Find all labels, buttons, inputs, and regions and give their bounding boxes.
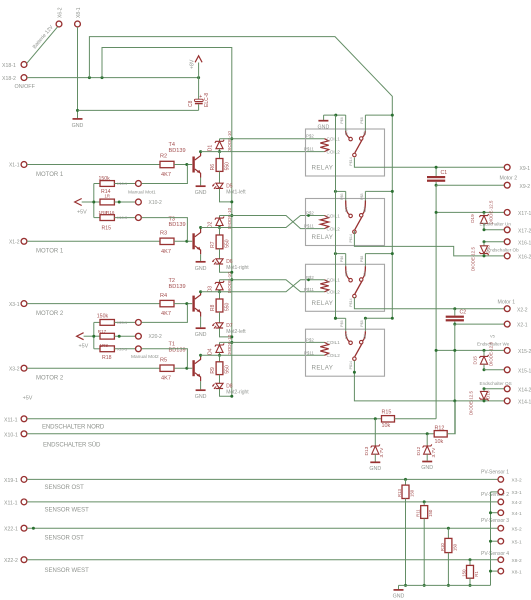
svg-text:RELAY: RELAY [312,234,334,241]
svg-text:C1: C1 [441,170,448,176]
connector pin X18-2 [21,75,27,81]
transistor T2 BD139 [192,296,194,312]
svg-text:Motor 2: Motor 2 [500,176,518,182]
resistor R17 150k [100,320,114,326]
svg-text:Manual Mot2: Manual Mot2 [131,354,159,360]
junction dot collector T1 [199,354,202,357]
svg-text:Mot2-left: Mot2-left [226,329,246,335]
ground symbol relay1 OFF contact [323,115,325,120]
svg-text:4K7: 4K7 [161,376,171,382]
wire sensor line SENSOR WEST [27,559,498,561]
svg-text:X10-2: X10-2 [149,200,163,206]
pin X22-1 SENSOR OST [21,525,27,531]
junction dot collector T2 [199,290,202,293]
svg-text:Mot2-right: Mot2-right [226,390,249,396]
svg-text:550: 550 [225,302,231,311]
junction dot collector T4 [199,150,202,153]
svg-text:X1-1: X1-1 [9,163,20,169]
svg-text:X15-2: X15-2 [518,349,531,355]
svg-text:D12: D12 [416,446,422,455]
ground symbol D12 [422,461,432,463]
wire vertical V2 from C2 down [454,324,456,434]
relay K4 common contact [355,344,362,357]
wire R5 to base of T1 [174,367,192,369]
connector pin X1-2 MOTOR 1 [21,238,27,244]
connector pin X6-2 Batterie [56,21,62,27]
relay K4 contact circles [349,341,353,345]
wire X20-1 to T2 base [142,304,188,323]
svg-text:OFF: OFF [344,270,348,276]
junction dot +8V rail at D3 [230,278,233,281]
relay K1 contact arms [346,131,350,138]
svg-text:X19-1: X19-1 [4,478,18,484]
wire GND net horizontal [78,109,199,111]
svg-text:X3-2: X3-2 [512,478,522,484]
svg-text:MOTOR 2: MOTOR 2 [36,376,64,382]
svg-text:X15-1: X15-1 [518,368,531,374]
svg-text:4K7: 4K7 [161,311,171,317]
svg-text:550: 550 [225,162,231,171]
zener diode D15 DIODE-12.5 [483,350,485,356]
svg-text:X3-1: X3-1 [512,490,522,496]
connector pin X3-2 MOTOR 2 [21,365,27,371]
pin X22-2 SENSOR WEST [21,557,27,563]
zener diode D18 DIODE-12.5 [483,242,485,246]
zener diode D12 3.7V [426,434,428,446]
resistor R7 550 [219,228,221,236]
zener diode D2 DIODE-10 [219,216,221,219]
svg-text:R15: R15 [102,226,112,232]
resistor R6 550 [219,152,221,159]
wire LED D8 to +8V rail [220,389,232,397]
svg-text:P$14: P$14 [349,361,353,369]
relay K2 contact arms [346,201,350,215]
svg-text:R2: R2 [160,154,167,160]
pin X16-2 [504,253,510,259]
svg-text:COIL2: COIL2 [327,290,341,295]
pin X15-2 [504,348,510,354]
svg-text:ON: ON [363,207,367,212]
wire X16-1 [484,241,504,243]
svg-text:RELAY: RELAY [312,165,334,172]
svg-text:150: 150 [461,569,466,577]
wire R3 to base of T3 [174,240,192,242]
relay K2 coil [320,216,328,229]
svg-text:P$14: P$14 [349,157,353,165]
zener diode D16 DIODE-12.5 [483,389,485,392]
supply +5V arrow rn1 [75,199,82,206]
svg-text:4K7: 4K7 [161,249,171,255]
transistor T3 BD139 [192,233,194,249]
svg-text:R1: R1 [474,571,479,577]
svg-text:150: 150 [428,509,433,517]
svg-text:X22-1: X22-1 [4,527,18,533]
wire X17-1 [436,211,504,213]
pin X2-1 [504,321,510,327]
ground symbol bottom rail [398,585,400,589]
svg-text:R10: R10 [440,543,445,551]
svg-text:X2-1: X2-1 [517,323,528,329]
pin X14-1 [504,398,510,404]
svg-text:RELAY: RELAY [312,365,334,372]
wire battery main +12V from X18-2 [27,77,199,79]
pin X10-1 ENDSCHALTER SUED [21,431,27,437]
wire Manual Mot1 to T4 base [142,165,188,184]
svg-text:PV-Sensor 4: PV-Sensor 4 [481,551,509,557]
svg-text:C8: C8 [188,100,194,107]
relay K1 common contact [355,140,362,153]
transistor T4 BD139 [192,157,194,173]
resistor R13 150 [405,479,407,485]
wire relay1 common to X9-1 [354,158,504,168]
wire R15 to V1 [395,418,437,420]
pin X9-2 and wire [436,184,504,186]
svg-text:GND: GND [195,190,207,196]
relay K3 common contact [355,281,362,294]
LED D6 Mot1-right [219,249,221,259]
ground of T1 [200,381,202,389]
svg-text:RELAY: RELAY [312,300,334,307]
pin X8-1 [491,570,499,572]
wire relay4 common to X14-1 [354,361,504,401]
svg-text:P$6: P$6 [340,193,344,199]
svg-text:P$11: P$11 [304,287,314,292]
wire LED D6 to +8V rail [220,264,232,272]
svg-text:Mot1-right: Mot1-right [226,265,249,271]
relay K3 contact circles [349,278,353,282]
svg-text:OFF: OFF [344,206,348,212]
svg-text:10k: 10k [435,439,444,445]
wire R13 to ground rail [405,499,407,586]
pin X11-1 ENDSCHALTER NORD [21,416,27,422]
svg-text:X16-1: X16-1 [518,240,531,246]
svg-text:X16-2: X16-2 [518,255,531,261]
svg-text:DIODE-10: DIODE-10 [227,334,232,356]
resistor R9 550 [219,355,221,362]
svg-text:PV-Sensor 2: PV-Sensor 2 [481,492,509,498]
svg-text:P$8: P$8 [360,320,364,326]
svg-text:X20-3: X20-3 [117,347,127,351]
wire X3-2 to R5 [27,367,160,369]
wire T4 collector line to relay1 coil2 [201,151,325,153]
wire GND bus left contacts vertical [335,115,337,318]
relay K2 common contact [355,217,362,230]
svg-text:R8: R8 [210,304,216,311]
relay K3 contact arms [346,266,350,279]
svg-text:BD139: BD139 [169,284,186,290]
svg-text:D1: D1 [208,145,214,152]
svg-text:P$2: P$2 [306,211,314,216]
capacitor C8 ELC-8 [198,78,200,100]
pin X19-1 SENSOR OST [21,477,27,483]
wire sensor line SENSOR WEST [27,501,498,503]
resistor R2 4K7 [160,161,174,167]
resistor R5 4K7 [160,365,174,371]
svg-text:R13: R13 [397,489,402,497]
svg-text:MOTOR 2: MOTOR 2 [36,311,64,317]
svg-text:X17-2: X17-2 [518,228,531,234]
capacitor C1 [435,167,437,176]
wire sensor line SENSOR OST [27,478,498,480]
relay K4 contact arms [346,331,350,341]
svg-text:P$6: P$6 [340,320,344,326]
pin X14-2 [504,386,510,392]
wire T1 collector line to relay4 coil2 [201,354,325,356]
pin X4-1 [491,512,499,514]
pin X16-1 [504,239,510,245]
wires rn2 to pins [114,321,135,323]
svg-text:P$11: P$11 [304,147,314,152]
pin X20-1 [136,320,142,326]
pin X15-1 [504,367,510,373]
relay K4 box [306,329,385,376]
svg-text:D13: D13 [364,446,370,455]
svg-text:+5V: +5V [23,396,33,402]
svg-text:X4-2: X4-2 [512,500,522,506]
svg-text:P$14: P$14 [349,298,353,306]
junction dot collector T3 [199,226,202,229]
svg-text:150: 150 [410,489,415,497]
svg-text:MOTOR 1: MOTOR 1 [36,249,64,255]
resistor R1 150 [469,560,471,566]
svg-text:+8V: +8V [190,59,196,69]
resistor R4 4K7 [160,300,174,306]
svg-text:GND: GND [369,466,381,472]
resistor R16 1R8 [100,199,114,205]
wire X18-1 to X6-2 diagonal [27,27,58,64]
wire D2 line to relay2 coil2 crossover [220,216,325,229]
svg-text:+: + [199,94,202,100]
svg-text:ON: ON [363,271,367,276]
svg-text:COIL1: COIL1 [327,278,341,283]
connector pin X3-1 MOTOR 2 [21,301,27,307]
svg-text:ENDSCHALTER SÜD: ENDSCHALTER SÜD [43,442,101,449]
svg-text:OFF: OFF [344,129,348,135]
svg-text:D16: D16 [486,390,491,399]
wire D1 line to relay1 coil1 [220,138,325,140]
pin X5-2 [498,525,504,531]
capacitor C2 [453,307,456,310]
svg-text:10k: 10k [382,423,391,429]
relay K1 contact stubs [324,114,346,116]
pin X17-1 [504,210,510,216]
svg-text:PV-Sensor 1: PV-Sensor 1 [481,470,509,476]
wire LED D7 to +8V rail [220,328,232,337]
svg-text:SENSOR WEST: SENSOR WEST [45,508,90,514]
ground of T3 [200,254,202,261]
svg-text:R11: R11 [416,509,421,517]
svg-text:P$2: P$2 [306,337,314,342]
resistor R3 4K7 [160,238,174,244]
wire C8 bottom to GND net [198,104,200,110]
resistor R12 10k [434,431,447,437]
junction dot +8V rail at D1 [230,137,233,140]
svg-text:Manual Mot1: Manual Mot1 [128,190,156,196]
svg-text:3.7V: 3.7V [379,447,385,458]
ground symbol below X8-1 [73,118,83,120]
svg-text:X18-1: X18-1 [2,63,16,69]
svg-text:COIL2: COIL2 [327,226,341,231]
pin X5-1 [491,540,499,542]
junction dot GND bus relay4 [334,317,337,320]
svg-text:DIODE-10: DIODE-10 [227,131,232,153]
svg-text:R15: R15 [382,409,392,415]
wire X1-1 to R2 [27,164,160,166]
LED D8 Mot2-right [219,375,221,384]
wire R11 to ground rail [423,518,425,585]
svg-text:4K7: 4K7 [161,172,171,178]
supply +8V arrow [198,63,200,78]
resistor R11 150 [423,502,425,506]
zener diode D4 DIODE-10 [219,342,221,345]
svg-text:X17-1: X17-1 [518,211,531,217]
svg-text:OFF: OFF [344,333,348,339]
wire endschalter sued [27,433,434,435]
svg-text:3.7V: 3.7V [431,447,437,458]
wire D4 line to relay4 coil1 [220,341,325,343]
wire X10-3 to T3 base [142,218,188,242]
svg-text:R9: R9 [210,367,216,374]
relay K4 coil [320,342,328,355]
wire rn1 left bus [93,184,95,218]
svg-text:COIL2: COIL2 [327,353,341,358]
svg-text:X3-1: X3-1 [9,302,20,308]
relay K3 box [306,264,385,311]
junction dots on battery wire [88,76,91,79]
svg-text:550: 550 [225,365,231,374]
resistor R18a 1R8 [100,333,114,339]
svg-text:X11-1: X11-1 [4,500,18,506]
svg-text:X11-1: X11-1 [4,417,18,423]
svg-text:1R: 1R [105,194,110,199]
svg-text:R6: R6 [210,164,216,171]
wire X15-1 [484,369,504,371]
svg-text:PV-Sensor 3: PV-Sensor 3 [481,518,509,524]
relay K2 box [306,199,385,246]
svg-text:150: 150 [452,543,457,551]
relay K4 contact stubs [335,317,345,319]
svg-text:GND: GND [195,266,207,272]
connector pin X18-1 [21,62,27,68]
svg-text:MOTOR 1: MOTOR 1 [36,172,64,178]
supply +5V arrow rn2 [77,333,84,340]
wire X17-2 [484,229,504,231]
svg-text:R7: R7 [210,241,216,248]
svg-text:150k: 150k [97,314,109,320]
ground symbol D13 [370,461,380,463]
pin X17-2 [504,227,510,233]
resistor R15 rn1 bottom [100,215,114,221]
svg-text:DIODE-10: DIODE-10 [227,272,232,294]
svg-text:Endschalter OS: Endschalter OS [480,381,512,386]
svg-text:DIODE-12.5: DIODE-12.5 [471,247,476,271]
wire Manual Mot2 to T1 base [142,349,188,368]
LED D7 Mot2-left [219,312,221,323]
svg-text:DIODE-10: DIODE-10 [227,207,232,229]
svg-text:X9-2: X9-2 [520,184,531,190]
wire T2 collector line to relay3 coil1 crossover [201,280,325,292]
junction dot relay4 common at box edge [353,371,356,374]
svg-text:X6-2: X6-2 [58,7,64,18]
ground of T2 [200,317,202,328]
svg-text:P$14: P$14 [349,234,353,242]
wire X14-2 [484,388,504,390]
svg-text:D19: D19 [470,214,475,223]
zener diode D19 DIODE-12.5 [483,212,485,215]
wire R10 to ground rail [447,553,449,586]
svg-text:P$8: P$8 [360,256,364,262]
svg-text:R12: R12 [435,425,445,431]
svg-text:P$11: P$11 [304,350,314,355]
wire branch 2 up right and down +8V rail [102,48,232,397]
svg-text:X8-1: X8-1 [512,569,522,575]
svg-text:GND: GND [318,125,330,131]
svg-text:X5-1: X5-1 [512,540,522,546]
svg-text:Endschalter Un: Endschalter Un [480,221,512,226]
svg-text:R5: R5 [160,357,167,363]
svg-text:X2-2: X2-2 [517,307,528,313]
svg-text:V5: V5 [490,334,496,339]
wire sensor return vertical [490,492,492,586]
svg-text:X10-1: X10-1 [4,432,18,438]
junction dot +8V rail at D2 [230,214,233,217]
svg-text:P$6: P$6 [340,256,344,262]
wire R12 up to X14-1 line [447,401,455,434]
svg-text:P$2: P$2 [306,275,314,280]
wire X1-2 to R3 [27,240,160,242]
connector pin X1-1 MOTOR 1 [21,162,27,168]
svg-text:DIODE-12.5: DIODE-12.5 [469,391,474,415]
svg-text:BD139: BD139 [169,222,186,228]
ground of T4 [200,178,202,186]
wire vertical V1 from C1 down [435,185,437,419]
svg-text:Motor 1: Motor 1 [498,299,516,305]
svg-text:R3: R3 [160,231,167,237]
zener diode D3 DIODE-10 [219,280,221,283]
wire rn2 left bus [93,322,95,348]
zener diode D13 3.7V [374,419,376,446]
resistor R10 150 [447,528,449,538]
svg-text:X10-1: X10-1 [117,182,127,186]
wire LED D5 to +8V rail [220,189,232,202]
wire relay3 common to X2-2 [354,297,504,309]
svg-text:P$11: P$11 [304,224,314,229]
wire X15-2 [436,349,504,351]
svg-text:ON: ON [363,130,367,135]
svg-text:X1-2: X1-2 [9,240,20,246]
wire R2 to base of T4 [174,164,192,166]
svg-text:X10-3: X10-3 [117,216,127,220]
svg-text:X14-2: X14-2 [518,387,531,393]
pin X8-2 [498,557,504,563]
wire endschalter nord [27,418,381,420]
svg-text:P$8: P$8 [360,193,364,199]
resistor R15 10k [382,416,395,422]
svg-text:+5V: +5V [79,344,89,350]
svg-text:GND: GND [421,465,433,471]
svg-text:P$6: P$6 [340,117,344,123]
junction dot +8V rail at D4 [230,341,233,344]
svg-text:SENSOR OST: SENSOR OST [45,485,85,491]
relay K1 box [306,129,385,176]
svg-text:C2: C2 [460,310,467,316]
svg-text:SENSOR OST: SENSOR OST [45,535,85,541]
wire relay2 common to X16-2 [354,231,504,256]
svg-text:Mot1-left: Mot1-left [226,190,246,196]
relay K1 contact circles [349,137,353,141]
svg-text:X22-2: X22-2 [4,558,18,564]
pin X3-1 [491,491,499,493]
